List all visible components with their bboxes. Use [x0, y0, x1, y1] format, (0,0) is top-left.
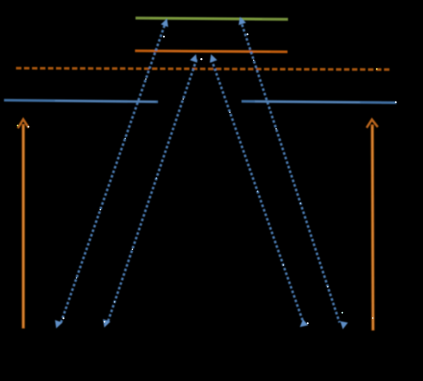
upper energy level E3 (green line): [136, 18, 289, 19]
metastable level right segment (blue line): [242, 101, 397, 102]
transition arrow D3 (blue dashed, ground to E2 right): [210, 54, 308, 327]
pump arrow left (orange vertical arrow): [18, 119, 29, 328]
pump arrow right (orange vertical arrow): [367, 120, 378, 331]
transition arrow D4 (blue dashed, ground to E3 right): [239, 17, 348, 330]
sparkle artifacts: [17, 33, 397, 324]
energy level E2 (orange line): [135, 51, 288, 52]
metastable level left segment (blue line): [4, 100, 158, 102]
transition arrow D2 (blue dashed, ground to E2 left): [103, 54, 197, 327]
virtual level (orange dashed line): [16, 68, 391, 69]
transition arrow D1 (blue dashed, ground to E3 left): [55, 19, 168, 329]
